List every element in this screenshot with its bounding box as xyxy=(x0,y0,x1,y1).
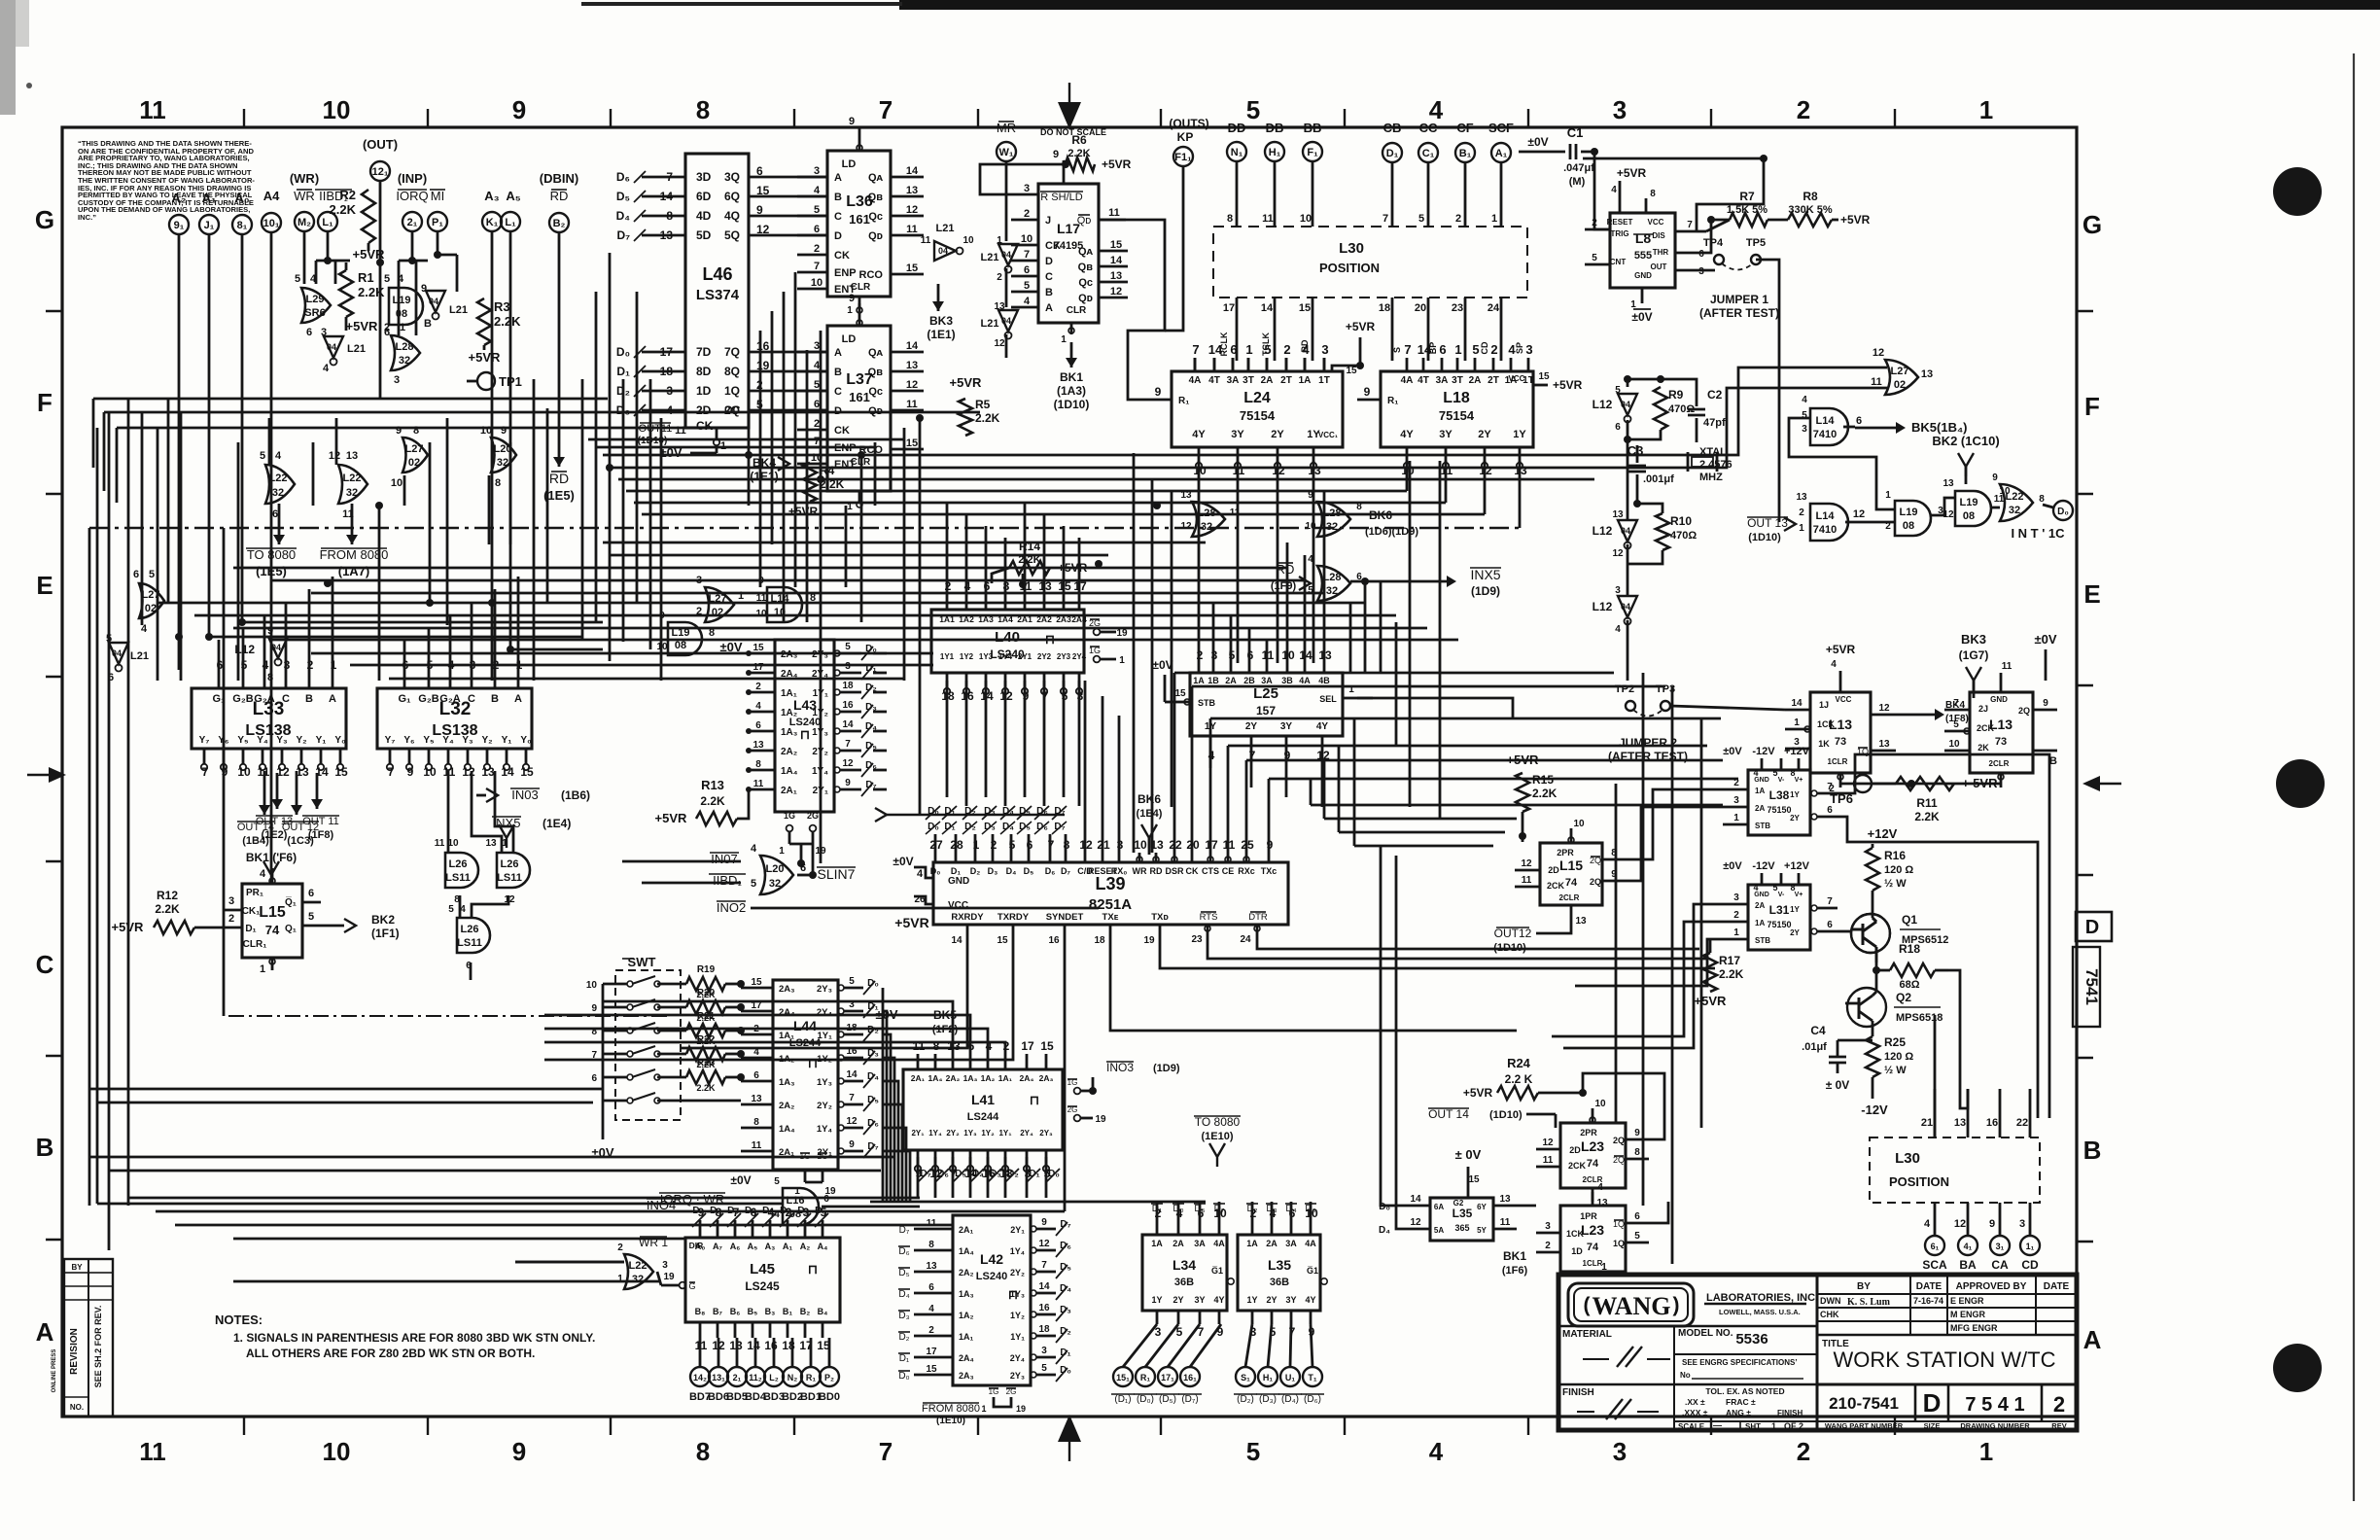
svg-text:2: 2 xyxy=(1455,213,1461,225)
svg-text:18: 18 xyxy=(660,365,674,378)
svg-text:15: 15 xyxy=(997,935,1008,946)
svg-text:13: 13 xyxy=(1954,1117,1966,1129)
svg-text:BA: BA xyxy=(1959,1258,1977,1272)
bottom ticks xyxy=(243,1417,245,1435)
oscillator wires xyxy=(1627,379,1697,389)
svg-text:10: 10 xyxy=(811,277,822,289)
svg-text:VCC: VCC xyxy=(1509,374,1525,383)
svg-text:13: 13 xyxy=(1921,368,1933,380)
svg-text:L19: L19 xyxy=(393,295,411,306)
svg-text:SEL: SEL xyxy=(1319,694,1337,704)
svg-text:(D₄): (D₄) xyxy=(1281,1394,1299,1405)
svg-text:L₂: L₂ xyxy=(769,1373,779,1382)
svg-text:(1E5): (1E5) xyxy=(256,564,287,578)
svg-text:2A₂: 2A₂ xyxy=(779,1101,794,1111)
svg-text:A₆: A₆ xyxy=(730,1242,741,1251)
svg-text:1CLR: 1CLR xyxy=(1828,757,1848,766)
svg-text:10: 10 xyxy=(1021,233,1032,245)
svg-text:5: 5 xyxy=(1615,385,1621,396)
drawing number row xyxy=(1914,1384,1917,1421)
wire group under L46 extras xyxy=(588,438,904,441)
svg-text:L46: L46 xyxy=(702,264,732,284)
svg-text:L23: L23 xyxy=(1581,1222,1604,1238)
svg-text:3: 3 xyxy=(666,384,673,398)
svg-text:15: 15 xyxy=(520,765,534,779)
IC L13-73 first xyxy=(1810,692,1871,773)
svg-text:RD: RD xyxy=(1277,562,1295,577)
svg-text:15: 15 xyxy=(752,643,764,653)
svg-text:R10: R10 xyxy=(1670,514,1692,528)
svg-text:+ 5VR: + 5VR xyxy=(1962,776,1998,790)
svg-text:L14: L14 xyxy=(1816,510,1836,522)
svg-text:D₄: D₄ xyxy=(616,209,631,223)
svg-text:7: 7 xyxy=(814,436,820,447)
svg-text:15: 15 xyxy=(1040,1039,1054,1053)
svg-text:FINISH: FINISH xyxy=(1777,1409,1802,1417)
svg-text:Y₁: Y₁ xyxy=(316,735,327,746)
svg-text:73: 73 xyxy=(1995,736,2007,748)
svg-text:OUT 14: OUT 14 xyxy=(1428,1107,1469,1121)
svg-text:3: 3 xyxy=(1613,1437,1627,1466)
svg-text:(1D10): (1D10) xyxy=(1054,398,1090,411)
svg-text:12: 12 xyxy=(1542,1137,1554,1148)
svg-text:365: 365 xyxy=(1454,1223,1469,1233)
svg-text:4Q: 4Q xyxy=(724,209,740,223)
svg-text:2: 2 xyxy=(1283,342,1290,357)
svg-text:+5VR: +5VR xyxy=(1102,157,1132,171)
svg-text:32: 32 xyxy=(769,878,781,890)
svg-text:5: 5 xyxy=(1246,95,1260,124)
svg-text:3: 3 xyxy=(1733,892,1739,903)
wire group L44 output bundle xyxy=(882,988,885,1202)
svg-text:2K: 2K xyxy=(1977,743,1989,752)
svg-text:Y₅: Y₅ xyxy=(423,735,435,746)
svg-text:1Y: 1Y xyxy=(1307,429,1320,440)
svg-text:7: 7 xyxy=(879,1437,892,1466)
svg-text:1A₂: 1A₂ xyxy=(959,1311,974,1320)
svg-text:04: 04 xyxy=(1621,400,1630,409)
svg-text:5Y: 5Y xyxy=(1477,1226,1487,1235)
svg-text:3A: 3A xyxy=(1261,676,1273,685)
svg-text:INC.”: INC.” xyxy=(78,213,96,222)
svg-text:TP5: TP5 xyxy=(1746,237,1766,249)
svg-text:11: 11 xyxy=(2002,661,2012,672)
svg-text:5: 5 xyxy=(845,642,851,652)
svg-text:9: 9 xyxy=(1053,149,1059,160)
svg-text:(OUTS): (OUTS) xyxy=(1169,117,1208,130)
svg-text:D₁: D₁ xyxy=(616,365,630,378)
svg-text:2A₂: 2A₂ xyxy=(781,747,797,757)
svg-text:1Y₃: 1Y₃ xyxy=(963,1129,977,1137)
svg-text:E: E xyxy=(36,571,52,600)
svg-text:±0V: ±0V xyxy=(1723,746,1742,757)
svg-text:7: 7 xyxy=(1827,896,1833,907)
svg-text:C4: C4 xyxy=(1810,1024,1826,1037)
svg-text:(D₇): (D₇) xyxy=(1181,1394,1198,1405)
svg-text:3B: 3B xyxy=(1281,676,1293,685)
svg-text:5: 5 xyxy=(448,904,454,915)
svg-text:8: 8 xyxy=(928,1240,934,1250)
svg-text:12: 12 xyxy=(1038,1239,1050,1249)
switch resistors R19-R23 xyxy=(657,983,686,986)
wire rails bottom region xyxy=(89,1156,894,1159)
svg-text:1A: 1A xyxy=(1299,375,1312,386)
svg-text:6: 6 xyxy=(928,1282,934,1293)
svg-text:1A₂: 1A₂ xyxy=(981,1073,996,1083)
svg-text:Y₆: Y₆ xyxy=(403,735,414,746)
resistor R1 xyxy=(339,270,353,317)
svg-text:(1B6): (1B6) xyxy=(561,788,590,802)
svg-text:14: 14 xyxy=(1038,1281,1050,1292)
svg-text:17: 17 xyxy=(1021,1039,1034,1053)
svg-text:B: B xyxy=(424,318,432,330)
wire rails right staircase xyxy=(1311,804,1723,807)
svg-text:+5VR: +5VR xyxy=(894,915,928,930)
svg-text:WR: WR xyxy=(294,189,315,203)
svg-text:1G: 1G xyxy=(784,811,795,821)
svg-text:DIS: DIS xyxy=(1652,231,1665,240)
svg-text:½ W: ½ W xyxy=(1884,878,1907,890)
svg-text:BK2: BK2 xyxy=(371,913,395,927)
svg-text:1Y2: 1Y2 xyxy=(960,652,974,661)
svg-text:6: 6 xyxy=(1698,249,1704,260)
svg-text:R SH/LD: R SH/LD xyxy=(1040,192,1082,203)
bk1 arrow l17 xyxy=(1070,342,1073,367)
terminal A5 xyxy=(501,212,520,231)
svg-text:12₁: 12₁ xyxy=(372,166,389,178)
svg-text:32: 32 xyxy=(1326,585,1338,597)
svg-text:2Y₃: 2Y₃ xyxy=(817,984,832,995)
svg-text:P₂: P₂ xyxy=(824,1373,834,1382)
wire group L39 bottom xyxy=(681,948,967,1048)
svg-text:(D₆): (D₆) xyxy=(1304,1394,1321,1405)
svg-text:6: 6 xyxy=(814,224,820,235)
svg-text:L34: L34 xyxy=(1172,1257,1196,1273)
svg-text:Y₃: Y₃ xyxy=(462,735,473,746)
svg-text:A₅: A₅ xyxy=(506,189,520,203)
svg-text:D₇: D₇ xyxy=(1061,866,1070,876)
svg-text:7: 7 xyxy=(388,765,395,779)
wire group bottom right links xyxy=(1517,1205,1536,1207)
revision strip xyxy=(64,1259,113,1417)
svg-text:POSITION: POSITION xyxy=(1319,261,1380,275)
wire mesh center verticals xyxy=(748,350,751,506)
svg-text:4: 4 xyxy=(1753,883,1758,892)
svg-text:08: 08 xyxy=(1963,510,1975,522)
wire group L40 top risers xyxy=(946,503,949,594)
svg-text:7: 7 xyxy=(591,1050,597,1061)
svg-text:3: 3 xyxy=(228,895,234,907)
svg-text:R16: R16 xyxy=(1884,849,1906,862)
svg-text:L21: L21 xyxy=(347,343,366,355)
svg-text:6₁: 6₁ xyxy=(1931,1242,1940,1251)
svg-text:2T: 2T xyxy=(1280,375,1292,386)
svg-text:4: 4 xyxy=(1611,185,1617,195)
WANG logo xyxy=(1568,1283,1694,1326)
svg-text:BK6: BK6 xyxy=(1137,792,1161,806)
IC L38 75150 xyxy=(1748,770,1810,835)
svg-text:2: 2 xyxy=(997,272,1002,283)
drawing number tab 7541 xyxy=(2073,947,2100,1027)
svg-text:L19: L19 xyxy=(1960,497,1978,508)
svg-text:L44: L44 xyxy=(793,1018,817,1033)
svg-text:(1D10): (1D10) xyxy=(1748,532,1781,543)
svg-text:(D₁): (D₁) xyxy=(1114,1394,1131,1405)
svg-text:F1₁: F1₁ xyxy=(1174,152,1192,163)
svg-text:2.2K: 2.2K xyxy=(494,314,521,329)
svg-text:6: 6 xyxy=(306,327,312,338)
svg-text:18: 18 xyxy=(842,681,854,691)
svg-text:19: 19 xyxy=(1143,935,1155,946)
svg-text:DATE: DATE xyxy=(1916,1281,1942,1292)
bottom registration arrow xyxy=(1068,1435,1070,1461)
svg-text:+5VR: +5VR xyxy=(1840,213,1871,227)
svg-text:3A: 3A xyxy=(1436,375,1449,386)
svg-text:15: 15 xyxy=(1346,366,1357,376)
svg-text:TXᴅ: TXᴅ xyxy=(1151,912,1169,923)
terminal WR xyxy=(295,212,314,231)
slin7 label xyxy=(797,874,813,877)
svg-text:16₁: 16₁ xyxy=(1183,1373,1197,1382)
svg-text:4A: 4A xyxy=(1305,1239,1316,1248)
svg-text:14: 14 xyxy=(747,1339,760,1352)
svg-text:04: 04 xyxy=(429,297,438,306)
svg-text:1Y₁: 1Y₁ xyxy=(1010,1332,1025,1342)
svg-text:1CLR: 1CLR xyxy=(1583,1259,1603,1268)
svg-text:Y₄: Y₄ xyxy=(442,735,454,746)
svg-text:8: 8 xyxy=(696,1437,710,1466)
svg-text:16: 16 xyxy=(1038,1303,1050,1313)
svg-text:10: 10 xyxy=(1134,838,1147,852)
svg-text:L25: L25 xyxy=(1253,685,1278,702)
terminal M1 xyxy=(428,212,447,231)
svg-text:+5VR: +5VR xyxy=(1826,643,1856,656)
svg-text:-12V: -12V xyxy=(1752,746,1775,757)
svg-text:A: A xyxy=(36,1317,54,1347)
terminal DBIN RD xyxy=(549,213,569,232)
svg-text:3Y: 3Y xyxy=(1280,721,1293,732)
resistor R7 xyxy=(1730,213,1767,227)
svg-text:3Y: 3Y xyxy=(1285,1295,1296,1305)
svg-text:13: 13 xyxy=(346,450,358,462)
svg-text:+5VR: +5VR xyxy=(346,319,378,333)
svg-text:D₆: D₆ xyxy=(898,1246,909,1257)
iorq wr wires xyxy=(97,1203,783,1206)
svg-text:5: 5 xyxy=(1246,1437,1260,1466)
gate L19-08 a xyxy=(389,288,423,325)
svg-text:17: 17 xyxy=(660,345,674,359)
svg-text:1A₄: 1A₄ xyxy=(928,1073,943,1083)
svg-text:13: 13 xyxy=(1110,270,1122,282)
gate L28-32 c xyxy=(1192,502,1225,537)
svg-text:15: 15 xyxy=(1110,239,1122,251)
svg-text:2₁: 2₁ xyxy=(733,1373,742,1382)
svg-text:2A: 2A xyxy=(1266,1239,1277,1248)
svg-text:D₅: D₅ xyxy=(898,1268,909,1278)
gate L22-32 right xyxy=(2000,484,2033,521)
gate L16-08 iorqwr xyxy=(783,1188,819,1225)
svg-text:L21: L21 xyxy=(981,252,999,263)
wire rails upper-left band xyxy=(93,398,608,401)
svg-text:1Y₄: 1Y₄ xyxy=(1010,1246,1025,1256)
svg-text:I N T ' 1C: I N T ' 1C xyxy=(2011,526,2065,541)
IC L35 365 xyxy=(1430,1198,1493,1241)
svg-text:L39: L39 xyxy=(1095,874,1125,893)
wire kp drop xyxy=(1165,166,1183,331)
svg-text:13: 13 xyxy=(1942,478,1954,489)
svg-text:2D: 2D xyxy=(1548,865,1559,875)
svg-text:B₁: B₁ xyxy=(783,1307,792,1316)
approval grid xyxy=(1817,1293,2077,1295)
svg-text:TP4: TP4 xyxy=(1703,237,1724,249)
svg-text:3Y: 3Y xyxy=(1194,1295,1205,1305)
svg-text:Qᴅ: Qᴅ xyxy=(1077,215,1092,227)
svg-text:E: E xyxy=(2083,579,2100,609)
svg-text:INX5: INX5 xyxy=(493,816,521,830)
svg-text:11: 11 xyxy=(435,838,445,849)
svg-text:2: 2 xyxy=(617,1242,623,1253)
svg-text:1A: 1A xyxy=(1151,1239,1163,1248)
svg-text:1A₂: 1A₂ xyxy=(781,708,797,718)
svg-text:02: 02 xyxy=(408,457,420,469)
svg-text:A₇: A₇ xyxy=(713,1242,722,1251)
svg-text:10: 10 xyxy=(323,1437,351,1466)
svg-text:3: 3 xyxy=(2019,1218,2025,1230)
svg-text:FINISH: FINISH xyxy=(1562,1387,1594,1398)
svg-text:+5VR: +5VR xyxy=(1507,752,1539,767)
svg-text:CF: CF xyxy=(1456,121,1473,135)
svg-text:±0V: ±0V xyxy=(1527,135,1548,149)
svg-text:1A₃: 1A₃ xyxy=(779,1077,795,1088)
svg-text:74: 74 xyxy=(1587,1158,1599,1170)
IC L17 74195 xyxy=(1038,184,1099,323)
svg-text:D₅: D₅ xyxy=(1024,866,1034,876)
to 8080 arrow xyxy=(278,504,281,544)
svg-text:G: G xyxy=(2082,210,2102,239)
wire mesh right verticals xyxy=(1194,358,1197,371)
svg-text:1B: 1B xyxy=(1207,676,1219,685)
svg-text:2A₁: 2A₁ xyxy=(959,1225,974,1235)
svg-text:32: 32 xyxy=(399,355,410,367)
svg-text:3Y: 3Y xyxy=(1231,429,1244,440)
svg-text:4: 4 xyxy=(1924,1218,1931,1230)
svg-text:L22: L22 xyxy=(343,472,362,484)
svg-text:3: 3 xyxy=(814,340,820,352)
svg-text:1D: 1D xyxy=(696,384,712,398)
svg-text:(1D9): (1D9) xyxy=(1153,1063,1180,1074)
svg-text:15: 15 xyxy=(334,765,348,779)
svg-text:2T: 2T xyxy=(1487,375,1499,386)
terminal CB xyxy=(1382,143,1402,162)
svg-text:D₄: D₄ xyxy=(898,1289,909,1300)
svg-text:B: B xyxy=(491,693,499,705)
svg-text:14: 14 xyxy=(906,165,919,177)
gate L22-32 from8080 xyxy=(338,465,367,504)
svg-text:L22: L22 xyxy=(629,1260,647,1272)
svg-text:DWN: DWN xyxy=(1820,1296,1841,1306)
svg-text:8: 8 xyxy=(495,477,501,489)
svg-text:7541: 7541 xyxy=(2082,968,2101,1005)
svg-text:+5VR: +5VR xyxy=(1695,994,1727,1008)
svg-text:23: 23 xyxy=(1191,934,1203,945)
wire group bus to L39 pins xyxy=(934,834,937,853)
svg-text:1: 1 xyxy=(1245,342,1252,357)
svg-text:L30: L30 xyxy=(1895,1150,1920,1167)
svg-text:IN07: IN07 xyxy=(711,852,737,866)
svg-text:17₁: 17₁ xyxy=(1161,1373,1174,1382)
svg-text:8: 8 xyxy=(267,672,273,683)
svg-text:2CK: 2CK xyxy=(1568,1161,1587,1171)
RD 1E5 arrow xyxy=(558,442,561,467)
svg-text:ALL OTHERS ARE FOR Z80 2BD WK: ALL OTHERS ARE FOR Z80 2BD WK STN OR BOT… xyxy=(246,1347,535,1360)
svg-text:2Y: 2Y xyxy=(1478,429,1491,440)
svg-text:2Y2: 2Y2 xyxy=(1037,652,1052,661)
svg-text:TO 8080: TO 8080 xyxy=(247,547,296,562)
svg-text:2Y: 2Y xyxy=(1271,429,1284,440)
svg-text:1Y: 1Y xyxy=(1790,905,1800,914)
out11 arrow xyxy=(316,773,319,809)
svg-text:R3: R3 xyxy=(494,299,510,314)
wire group L40 outputs down xyxy=(946,681,949,797)
svg-text:10₁: 10₁ xyxy=(263,218,280,229)
svg-text:H₁: H₁ xyxy=(1269,147,1281,158)
svg-text:10: 10 xyxy=(586,980,598,991)
wire group L25 outputs xyxy=(1209,748,1212,768)
svg-text:3: 3 xyxy=(1041,1346,1047,1356)
right page edge line xyxy=(2353,53,2355,1501)
svg-text:9: 9 xyxy=(512,1437,526,1466)
bottom terminals D group a xyxy=(1113,1367,1133,1386)
wire group L35-365 feeds xyxy=(1381,846,1400,1206)
svg-text:+5VR: +5VR xyxy=(788,505,819,518)
svg-text:(OUT): (OUT) xyxy=(363,137,398,152)
svg-text:6: 6 xyxy=(823,1194,829,1205)
svg-text:C2: C2 xyxy=(1707,388,1723,402)
inverter L21 e xyxy=(998,244,1018,273)
wire rails mid extra xyxy=(233,567,1287,570)
svg-text:BB: BB xyxy=(1304,121,1322,135)
svg-text:LS245: LS245 xyxy=(745,1279,780,1293)
svg-text:R13: R13 xyxy=(701,778,724,792)
svg-text:15: 15 xyxy=(926,1364,937,1375)
inverter L21 a xyxy=(426,291,445,320)
svg-text:LS240: LS240 xyxy=(976,1271,1007,1282)
svg-text:DB: DB xyxy=(1266,121,1284,135)
svg-text:7: 7 xyxy=(1382,213,1388,225)
svg-text:J: J xyxy=(1045,215,1051,227)
svg-text:47pf: 47pf xyxy=(1703,417,1726,429)
hole punch middle xyxy=(2276,759,2325,808)
svg-text:210-7541: 210-7541 xyxy=(1829,1394,1899,1413)
svg-text:2: 2 xyxy=(1799,507,1804,518)
svg-text:3: 3 xyxy=(1545,1221,1551,1232)
svg-text:2: 2 xyxy=(1733,778,1739,788)
svg-text:5: 5 xyxy=(308,911,314,923)
gate L14-7410 a xyxy=(1810,408,1848,445)
svg-text:1: 1 xyxy=(400,322,405,333)
svg-text:11₂: 11₂ xyxy=(749,1373,762,1382)
svg-text:G̅1: G̅1 xyxy=(1307,1266,1318,1276)
svg-text:21: 21 xyxy=(1921,1117,1933,1129)
svg-text:2PR: 2PR xyxy=(1557,848,1574,857)
svg-text:2A₁: 2A₁ xyxy=(781,786,797,796)
svg-text:RD: RD xyxy=(1150,866,1163,876)
terminal A1 xyxy=(199,215,219,234)
gate L20-32 slin7 xyxy=(760,856,793,894)
svg-text:FRAC ±: FRAC ± xyxy=(1726,1397,1756,1407)
svg-text:7Q: 7Q xyxy=(724,345,740,359)
svg-text:G₂B: G₂B xyxy=(418,693,438,705)
